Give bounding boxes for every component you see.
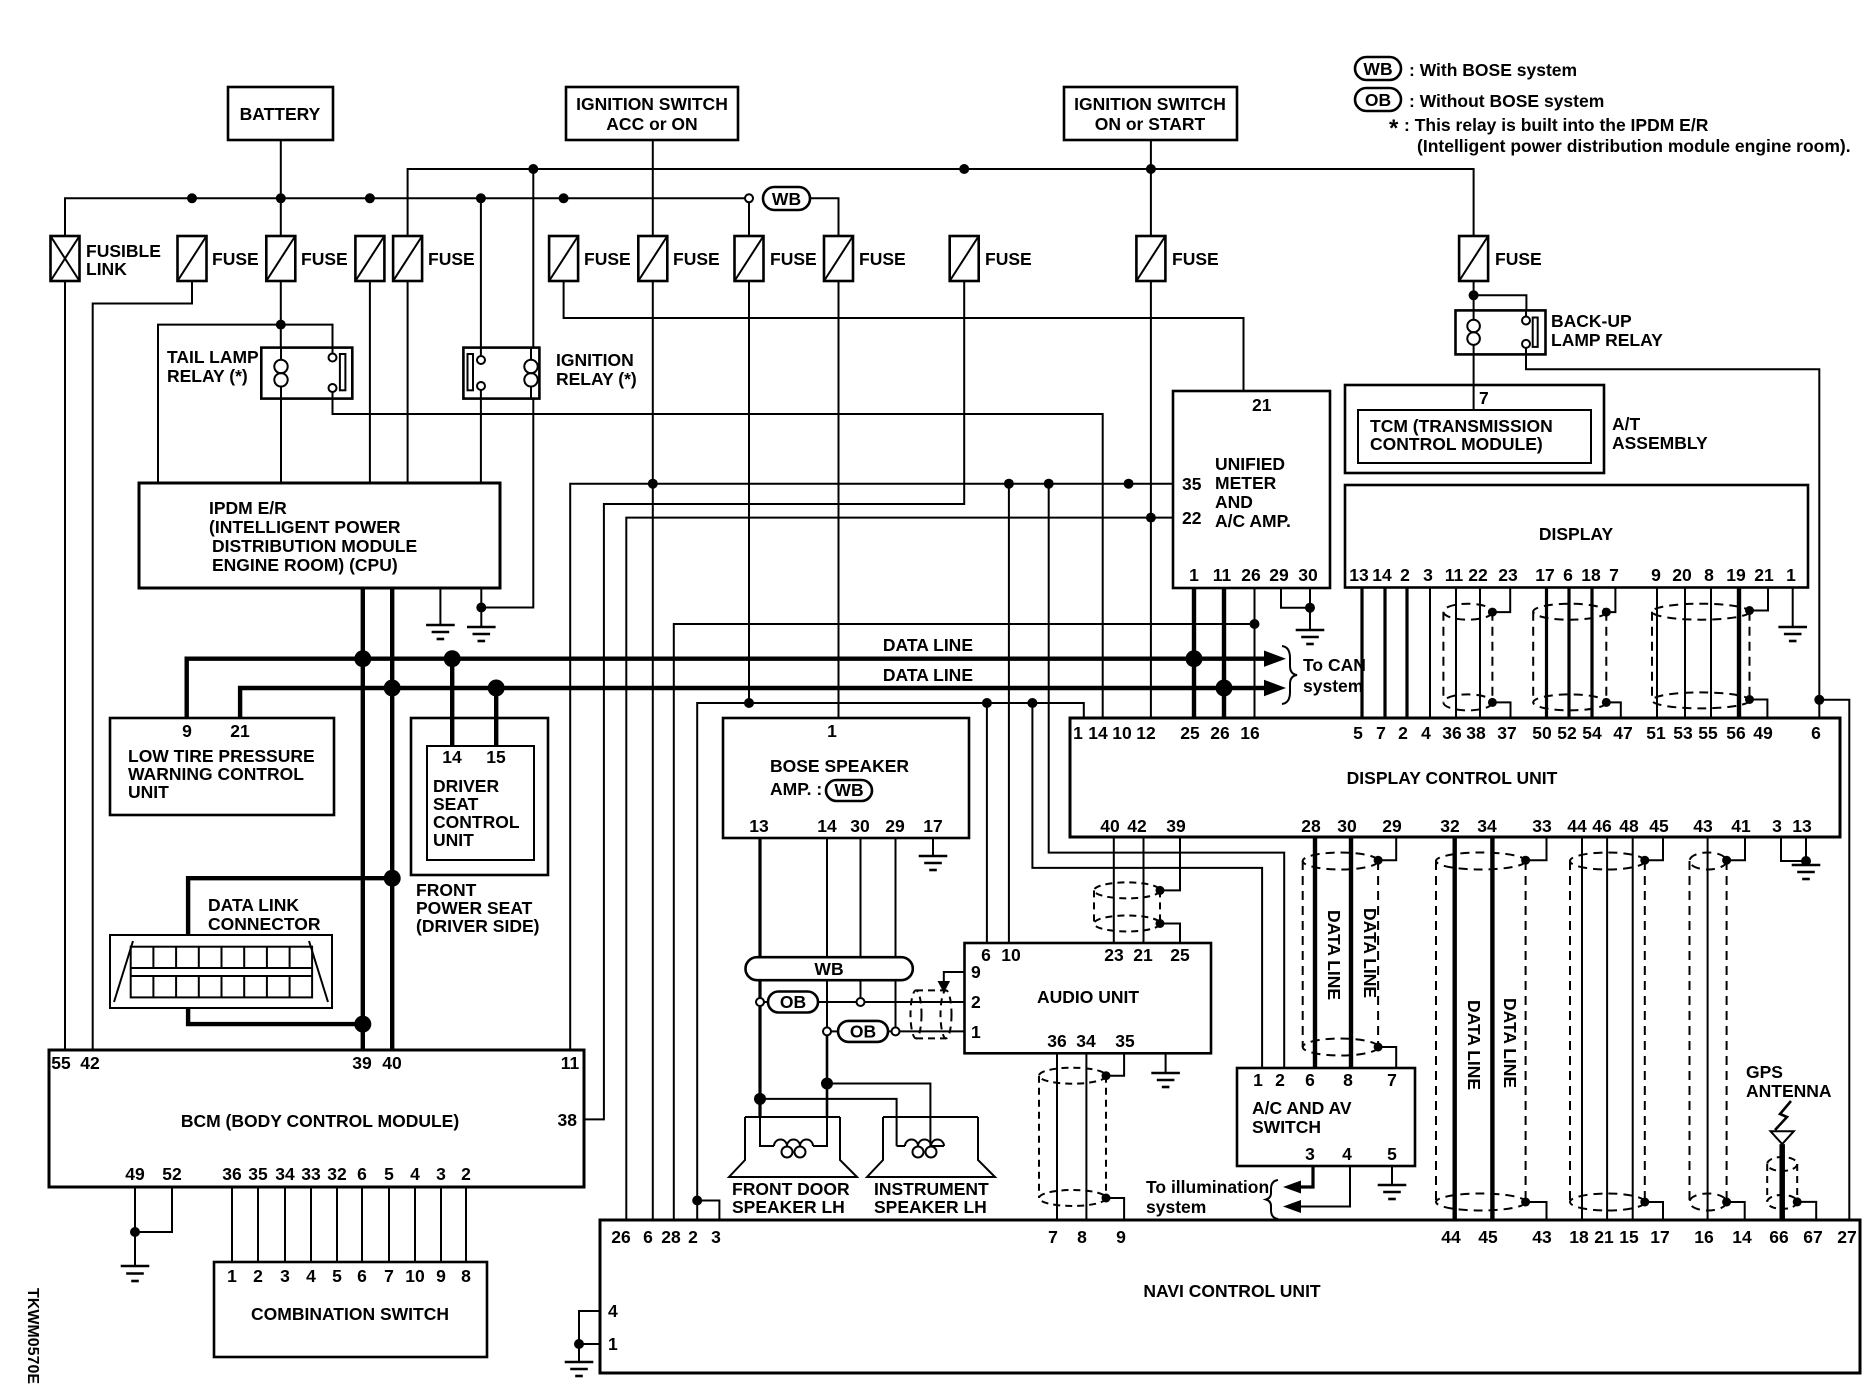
node bus2-battery	[276, 193, 286, 203]
svg-text:11: 11	[561, 1053, 580, 1073]
node shield23 bottom	[1488, 698, 1497, 707]
svg-text:FUSE: FUSE	[770, 249, 817, 269]
unified meter and A/C amp	[1173, 391, 1330, 588]
wire DCU3 jog	[1781, 837, 1806, 861]
svg-text:2: 2	[461, 1164, 471, 1184]
wire display6-dcu52	[1567, 588, 1570, 718]
wire ignition relay contact to IPDM	[480, 390, 482, 483]
svg-text:28: 28	[1301, 816, 1321, 836]
svg-text:26: 26	[1210, 723, 1230, 743]
OB connector pill 2	[829, 1021, 965, 1042]
wire fuse5 to UM pin 21	[564, 281, 1244, 391]
svg-text:40: 40	[382, 1053, 402, 1073]
svg-text:22: 22	[1182, 508, 1202, 528]
svg-text:COMBINATION SWITCH: COMBINATION SWITCH	[251, 1304, 449, 1324]
svg-text:2: 2	[1398, 723, 1408, 743]
svg-text:RELAY (*): RELAY (*)	[167, 366, 248, 386]
node shield35 top	[1102, 1071, 1111, 1080]
shield display 17-6-18	[1533, 604, 1606, 711]
shield navi 18-21-15	[1570, 853, 1645, 1211]
svg-text:(INTELLIGENT POWER: (INTELLIGENT POWER	[209, 517, 401, 537]
wire fusible link to BCM pin 55	[64, 281, 66, 1050]
svg-text:7: 7	[1376, 723, 1386, 743]
svg-text:7: 7	[384, 1266, 394, 1286]
svg-text:1: 1	[227, 1266, 237, 1286]
svg-text:TKWM0570E: TKWM0570E	[24, 1288, 41, 1384]
ground DCU	[1792, 865, 1821, 879]
svg-text:30: 30	[1337, 816, 1357, 836]
node bus2-ignition relay contact	[476, 193, 486, 203]
svg-text:AUDIO UNIT: AUDIO UNIT	[1037, 987, 1139, 1007]
ground BCM	[121, 1266, 150, 1281]
svg-text:DISPLAY CONTROL UNIT: DISPLAY CONTROL UNIT	[1347, 768, 1558, 788]
wire ignition relay coil to IPDM jog	[481, 399, 533, 608]
tail lamp relay K1	[167, 347, 352, 399]
node shield7 top	[1602, 608, 1611, 617]
svg-text:36: 36	[1442, 723, 1462, 743]
svg-text:4: 4	[410, 1164, 420, 1184]
svg-text:FUSE: FUSE	[1172, 249, 1219, 269]
svg-text:METER: METER	[1215, 473, 1277, 493]
svg-text:3: 3	[1423, 565, 1433, 585]
node wire35-audio10	[1004, 479, 1014, 489]
svg-text:4: 4	[306, 1266, 316, 1286]
svg-text:34: 34	[1076, 1031, 1096, 1051]
wire ACAV3 to illumination	[1289, 1166, 1313, 1187]
svg-text:5: 5	[384, 1164, 394, 1184]
wire DCU45 shield jog	[1645, 837, 1663, 860]
svg-text:2: 2	[688, 1227, 698, 1247]
svg-text:3: 3	[1305, 1144, 1315, 1164]
svg-text:DATA LINE: DATA LINE	[883, 635, 973, 655]
svg-text:52: 52	[162, 1164, 182, 1184]
svg-text:55: 55	[1698, 723, 1718, 743]
wire IPDM to BCM pin 39	[361, 588, 365, 1050]
svg-text:33: 33	[1532, 816, 1552, 836]
arrow data line 2	[1264, 680, 1286, 696]
wire shield to NAVI14	[1727, 1202, 1745, 1220]
wire WB to OB1 circle	[758, 980, 761, 998]
wire tail relay coil to IPDM	[280, 387, 282, 484]
svg-text:FUSE: FUSE	[212, 249, 259, 269]
svg-text:OB: OB	[1365, 90, 1391, 110]
wire display18-dcu54	[1590, 588, 1593, 718]
wire DCU40 to audio23	[1113, 837, 1115, 943]
OB connector pill 1	[764, 992, 965, 1013]
wire DCU44 to NAVI18	[1581, 837, 1583, 1220]
svg-text:ENGINE ROOM) (CPU): ENGINE ROOM) (CPU)	[212, 555, 398, 575]
fuse F2	[266, 236, 347, 281]
wire shield to audio25	[1160, 924, 1180, 944]
svg-text:10: 10	[405, 1266, 425, 1286]
wire fuse4 to IPDM	[407, 281, 409, 483]
svg-text:4: 4	[1421, 723, 1431, 743]
wire A/C-AV pin1 power from ACC net	[1032, 703, 1262, 1068]
svg-text:32: 32	[1440, 816, 1460, 836]
wire display9-dcu51	[1656, 588, 1658, 718]
svg-text:28: 28	[661, 1227, 681, 1247]
svg-text:19: 19	[1726, 565, 1746, 585]
wire display1 to ground	[1792, 588, 1794, 627]
svg-text:29: 29	[1382, 816, 1402, 836]
wire WB pill to circle on audio1 wire	[895, 980, 897, 1027]
svg-text:26: 26	[611, 1227, 631, 1247]
svg-text:47: 47	[1613, 723, 1632, 743]
wire DCU46 to NAVI21	[1606, 837, 1608, 1220]
svg-text:21: 21	[230, 721, 250, 741]
svg-text:system: system	[1146, 1197, 1206, 1217]
wire shield to NAVI17	[1645, 1202, 1663, 1220]
wire DCU34 data line to NAVI45	[1490, 837, 1494, 1220]
wire OB1 down to speakers	[758, 1006, 761, 1117]
node DL2-seat15	[488, 680, 505, 697]
fuse F8	[824, 236, 906, 281]
node shield45 top	[1640, 856, 1649, 865]
wire OB2 down to speakers	[826, 1035, 829, 1117]
node shield41 bottom	[1722, 1198, 1731, 1207]
svg-text:50: 50	[1532, 723, 1552, 743]
node open circle audio2 wire	[857, 998, 865, 1006]
svg-text:23: 23	[1104, 945, 1124, 965]
svg-text:6: 6	[643, 1227, 653, 1247]
wire audio6 column	[986, 703, 988, 943]
fuse F4	[393, 236, 475, 281]
svg-text:46: 46	[1592, 816, 1612, 836]
svg-text:33: 33	[301, 1164, 321, 1184]
ignition switch ON or START	[1064, 87, 1237, 140]
svg-text:To illumination: To illumination	[1146, 1177, 1269, 1197]
svg-text:7: 7	[1479, 388, 1489, 408]
svg-text:3: 3	[711, 1227, 721, 1247]
svg-text:ASSEMBLY: ASSEMBLY	[1612, 433, 1708, 453]
node UM29-30	[1305, 603, 1315, 613]
node shield29 bottom	[1374, 1043, 1383, 1052]
wire DCU42 to audio21	[1143, 837, 1145, 943]
ground display	[1778, 627, 1807, 641]
svg-text:23: 23	[1498, 565, 1518, 585]
BOSE speaker amp box	[723, 718, 969, 838]
node BCM49-52	[130, 1227, 140, 1237]
fuse F7	[735, 236, 817, 281]
node shield41 top	[1722, 856, 1731, 865]
svg-text:6: 6	[1305, 1070, 1315, 1090]
node shield21 top	[1745, 606, 1754, 615]
svg-text:system: system	[1303, 676, 1363, 696]
wire seat pin 15 from DL2	[494, 688, 498, 746]
svg-text:13: 13	[1792, 816, 1812, 836]
svg-text:14: 14	[1732, 1227, 1752, 1247]
svg-text:INSTRUMENT: INSTRUMENT	[874, 1179, 989, 1199]
wire NAVI pin 1 stub	[579, 1343, 600, 1345]
svg-text:44: 44	[1441, 1227, 1461, 1247]
svg-text:2: 2	[1400, 565, 1410, 585]
svg-text:To CAN: To CAN	[1303, 655, 1366, 675]
wire display2-dcu2	[1405, 588, 1408, 718]
wire backup relay contact to DCU pin 6	[1526, 348, 1819, 718]
node open circle OB1 left	[756, 998, 764, 1006]
svg-text:14: 14	[442, 747, 462, 767]
wire DCU13 to ground	[1805, 837, 1807, 865]
svg-text:BACK-UP: BACK-UP	[1551, 311, 1632, 331]
ground ACAV pin 5	[1378, 1166, 1407, 1199]
wire audio pin 9 to shield	[944, 972, 965, 984]
node open circle bus2 end	[745, 194, 753, 202]
wire BOSE29 to WB pill	[895, 838, 897, 957]
ground audio unit	[1151, 1053, 1180, 1087]
svg-text:BOSE SPEAKER: BOSE SPEAKER	[770, 756, 909, 776]
wire A/C-AV pin2 power from wire35	[1049, 484, 1285, 1068]
wire tail relay contact to DCU pin 14	[333, 392, 1103, 718]
display control unit box	[1070, 718, 1840, 837]
wire UM26 to DCU16 column	[1254, 588, 1256, 718]
node backup relay feed	[1469, 290, 1479, 300]
svg-text:FUSE: FUSE	[859, 249, 906, 269]
fuse F11	[1459, 236, 1542, 281]
instrument speaker LH	[867, 1117, 995, 1217]
svg-text:54: 54	[1582, 723, 1602, 743]
svg-text:WB: WB	[1363, 59, 1392, 79]
node y703-fuse7	[744, 698, 754, 708]
svg-text:30: 30	[1298, 565, 1318, 585]
wire UM29 jog	[1281, 588, 1310, 608]
wire shield to NAVI67	[1797, 1202, 1816, 1220]
wire jog to backup relay contact	[1474, 295, 1527, 310]
node shield39 top	[1156, 886, 1165, 895]
svg-text:UNIT: UNIT	[433, 830, 474, 850]
svg-text:9: 9	[971, 962, 981, 982]
ground BOSE pin 17	[919, 838, 948, 870]
svg-text:: This relay is built into the: : This relay is built into the IPDM E/R	[1404, 115, 1709, 135]
node shield23 top	[1488, 608, 1497, 617]
svg-text:41: 41	[1731, 816, 1751, 836]
wire shield to ACAV7	[1378, 1047, 1396, 1068]
svg-text:17: 17	[1650, 1227, 1669, 1247]
svg-text:6: 6	[1811, 723, 1821, 743]
wire DCU28 data line to ACAV6	[1313, 837, 1317, 1068]
wire DATA LINE 1 (CAN H)	[187, 659, 1270, 718]
svg-text:56: 56	[1726, 723, 1746, 743]
node navi2-navi3	[692, 1196, 702, 1206]
svg-text:16: 16	[1240, 723, 1260, 743]
wire WB to OB2 circle	[826, 980, 828, 1027]
node shield29 top	[1374, 856, 1383, 865]
wire branch to NAVI pin 3	[697, 1201, 719, 1221]
svg-text:14: 14	[1088, 723, 1108, 743]
svg-text:15: 15	[486, 747, 506, 767]
svg-text:29: 29	[885, 816, 905, 836]
wire BOSE30 to WB pill	[860, 838, 862, 957]
svg-text:FUSE: FUSE	[1495, 249, 1542, 269]
svg-text:6: 6	[981, 945, 991, 965]
svg-text:CONTROL MODULE): CONTROL MODULE)	[1370, 434, 1543, 454]
shield drain arrowhead	[938, 981, 951, 993]
svg-text:8: 8	[1343, 1070, 1353, 1090]
svg-text:FUSE: FUSE	[428, 249, 475, 269]
wire DCU39 shield jog top	[1160, 837, 1180, 890]
svg-text:2: 2	[971, 992, 981, 1012]
svg-text:7: 7	[1609, 565, 1619, 585]
svg-text:POWER SEAT: POWER SEAT	[416, 898, 533, 918]
svg-text:36: 36	[222, 1164, 242, 1184]
svg-text:11: 11	[1445, 565, 1464, 585]
svg-text:17: 17	[1535, 565, 1554, 585]
node shield33 top	[1521, 856, 1530, 865]
svg-text:42: 42	[80, 1053, 100, 1073]
shield acav data lines	[1303, 853, 1378, 1056]
svg-text:35: 35	[1182, 474, 1202, 494]
svg-text:SWITCH: SWITCH	[1252, 1117, 1321, 1137]
wire IPDM pin to jog	[480, 588, 482, 608]
svg-text:(DRIVER SIDE): (DRIVER SIDE)	[416, 916, 539, 936]
svg-text:ACC or ON: ACC or ON	[606, 114, 697, 134]
svg-text:51: 51	[1646, 723, 1666, 743]
svg-text:(Intelligent power distributio: (Intelligent power distribution module e…	[1417, 136, 1851, 156]
svg-text:SEAT: SEAT	[433, 794, 479, 814]
svg-text:35: 35	[1115, 1031, 1135, 1051]
wire fuse1 to BCM pin 42	[93, 281, 192, 1050]
node speaker plus	[754, 1093, 766, 1105]
node speaker minus	[821, 1078, 833, 1090]
wire UM11 to DCU26	[1222, 588, 1226, 718]
node y703-acav1	[1027, 698, 1037, 708]
svg-text:5: 5	[1387, 1144, 1397, 1164]
ground NAVI	[565, 1344, 594, 1376]
svg-text:BATTERY: BATTERY	[240, 104, 321, 124]
svg-text:43: 43	[1693, 816, 1713, 836]
wire UM30 to ground	[1309, 588, 1311, 630]
svg-text:FRONT: FRONT	[416, 880, 477, 900]
svg-text:DISTRIBUTION MODULE: DISTRIBUTION MODULE	[212, 536, 417, 556]
svg-text:A/C AND AV: A/C AND AV	[1252, 1098, 1352, 1118]
node shield39 bottom	[1156, 919, 1165, 928]
svg-text:21: 21	[1754, 565, 1774, 585]
svg-text:2: 2	[253, 1266, 263, 1286]
wire seat pin 14 from DL1	[450, 659, 454, 746]
svg-text:6: 6	[357, 1266, 367, 1286]
svg-text:29: 29	[1269, 565, 1289, 585]
wire fuse9 to BCM pin 38	[584, 281, 964, 1119]
svg-text:35: 35	[248, 1164, 268, 1184]
svg-text:14: 14	[817, 816, 837, 836]
wire fuse11 to back-up lamp relay	[1473, 281, 1475, 310]
wire display23 shield jog	[1492, 588, 1510, 612]
wire IPDM to BCM pin 40	[390, 588, 394, 1050]
svg-text:8: 8	[461, 1266, 471, 1286]
svg-text:13: 13	[1349, 565, 1369, 585]
svg-text:6: 6	[357, 1164, 367, 1184]
svg-text:CONNECTOR: CONNECTOR	[208, 914, 321, 934]
fusible link FL	[51, 236, 161, 281]
node shield45 bottom	[1640, 1198, 1649, 1207]
wire DCU43 to NAVI16	[1707, 837, 1709, 1220]
svg-text:NAVI CONTROL UNIT: NAVI CONTROL UNIT	[1143, 1281, 1321, 1301]
battery B1	[228, 87, 333, 140]
node DLC-BCM39	[354, 1016, 371, 1033]
svg-text:48: 48	[1619, 816, 1639, 836]
svg-text:21: 21	[1133, 945, 1153, 965]
node DL2-BCM40	[384, 680, 401, 697]
node shield gps	[1793, 1197, 1802, 1206]
node wire35-acav2	[1044, 479, 1054, 489]
svg-text:BCM (BODY CONTROL MODULE): BCM (BODY CONTROL MODULE)	[181, 1111, 459, 1131]
svg-text:CONTROL: CONTROL	[433, 812, 520, 832]
svg-text:22: 22	[1468, 565, 1488, 585]
svg-text:9: 9	[1651, 565, 1661, 585]
wire DLC bottom to BCM39 column	[188, 1008, 363, 1024]
shield navi data lines	[1436, 853, 1526, 1211]
svg-text:17: 17	[923, 816, 942, 836]
node shield7 bottom	[1602, 698, 1611, 707]
arrow data line 1	[1264, 651, 1286, 667]
svg-text:1: 1	[1073, 723, 1083, 743]
node bus1-relay coil	[528, 164, 538, 174]
ignition relay K2	[463, 348, 636, 399]
node DCU6-NAVI27	[1814, 695, 1824, 705]
svg-text:AND: AND	[1215, 492, 1253, 512]
svg-text:9: 9	[1116, 1227, 1126, 1247]
display box	[1345, 485, 1808, 588]
wire ACC switch column	[652, 140, 654, 236]
svg-text:LINK: LINK	[86, 259, 127, 279]
svg-text:AMP. :: AMP. :	[770, 779, 822, 799]
svg-text:7: 7	[1048, 1227, 1058, 1247]
svg-text:7: 7	[1387, 1070, 1397, 1090]
svg-text:1: 1	[827, 721, 837, 741]
svg-text:DRIVER: DRIVER	[433, 776, 499, 796]
svg-text:SPEAKER LH: SPEAKER LH	[874, 1197, 987, 1217]
BCM body control module	[49, 1050, 584, 1187]
wire ignition relay contact from bus2	[480, 198, 482, 347]
wire ON/START switch column	[1150, 140, 1152, 236]
svg-text:1: 1	[1786, 565, 1796, 585]
svg-text:IPDM E/R: IPDM E/R	[209, 498, 287, 518]
shield audio 36-34	[1039, 1068, 1106, 1206]
svg-text:34: 34	[275, 1164, 295, 1184]
node bus1-fuse9	[959, 164, 969, 174]
wire display17-dcu50	[1545, 588, 1548, 718]
fuse F3	[355, 236, 384, 281]
svg-text:49: 49	[1753, 723, 1773, 743]
svg-text:39: 39	[1166, 816, 1186, 836]
wire audio36 to NAVI7	[1056, 1053, 1058, 1220]
svg-text:DATA LINE: DATA LINE	[1360, 908, 1380, 998]
svg-text:8: 8	[1077, 1227, 1087, 1247]
svg-text:FUSE: FUSE	[301, 249, 348, 269]
brace To CAN	[1282, 646, 1297, 704]
svg-text:40: 40	[1100, 816, 1120, 836]
svg-text:36: 36	[1047, 1031, 1067, 1051]
wire fuse6 to NAVI pin 6	[652, 281, 654, 1220]
wire display13-dcu5	[1360, 588, 1363, 718]
svg-text:15: 15	[1619, 1227, 1639, 1247]
front door speaker LH	[729, 1117, 857, 1217]
wire display8-dcu55	[1710, 588, 1712, 718]
svg-text:32: 32	[327, 1164, 347, 1184]
svg-text:RELAY (*): RELAY (*)	[556, 369, 637, 389]
shield audio pins 2-1	[911, 990, 952, 1038]
low tire pressure warning control unit	[110, 718, 334, 815]
svg-text:OB: OB	[780, 992, 806, 1012]
svg-text:UNIFIED: UNIFIED	[1215, 454, 1285, 474]
node um26-navi28	[1250, 619, 1260, 629]
ground IPDM second	[426, 588, 455, 639]
NAVI control unit	[600, 1220, 1860, 1373]
svg-text:FUSE: FUSE	[985, 249, 1032, 269]
svg-text:WB: WB	[814, 959, 843, 979]
wire branch to NAVI pin 27	[1819, 700, 1849, 1220]
svg-text:25: 25	[1180, 723, 1200, 743]
arrow illumination 2	[1283, 1200, 1301, 1213]
